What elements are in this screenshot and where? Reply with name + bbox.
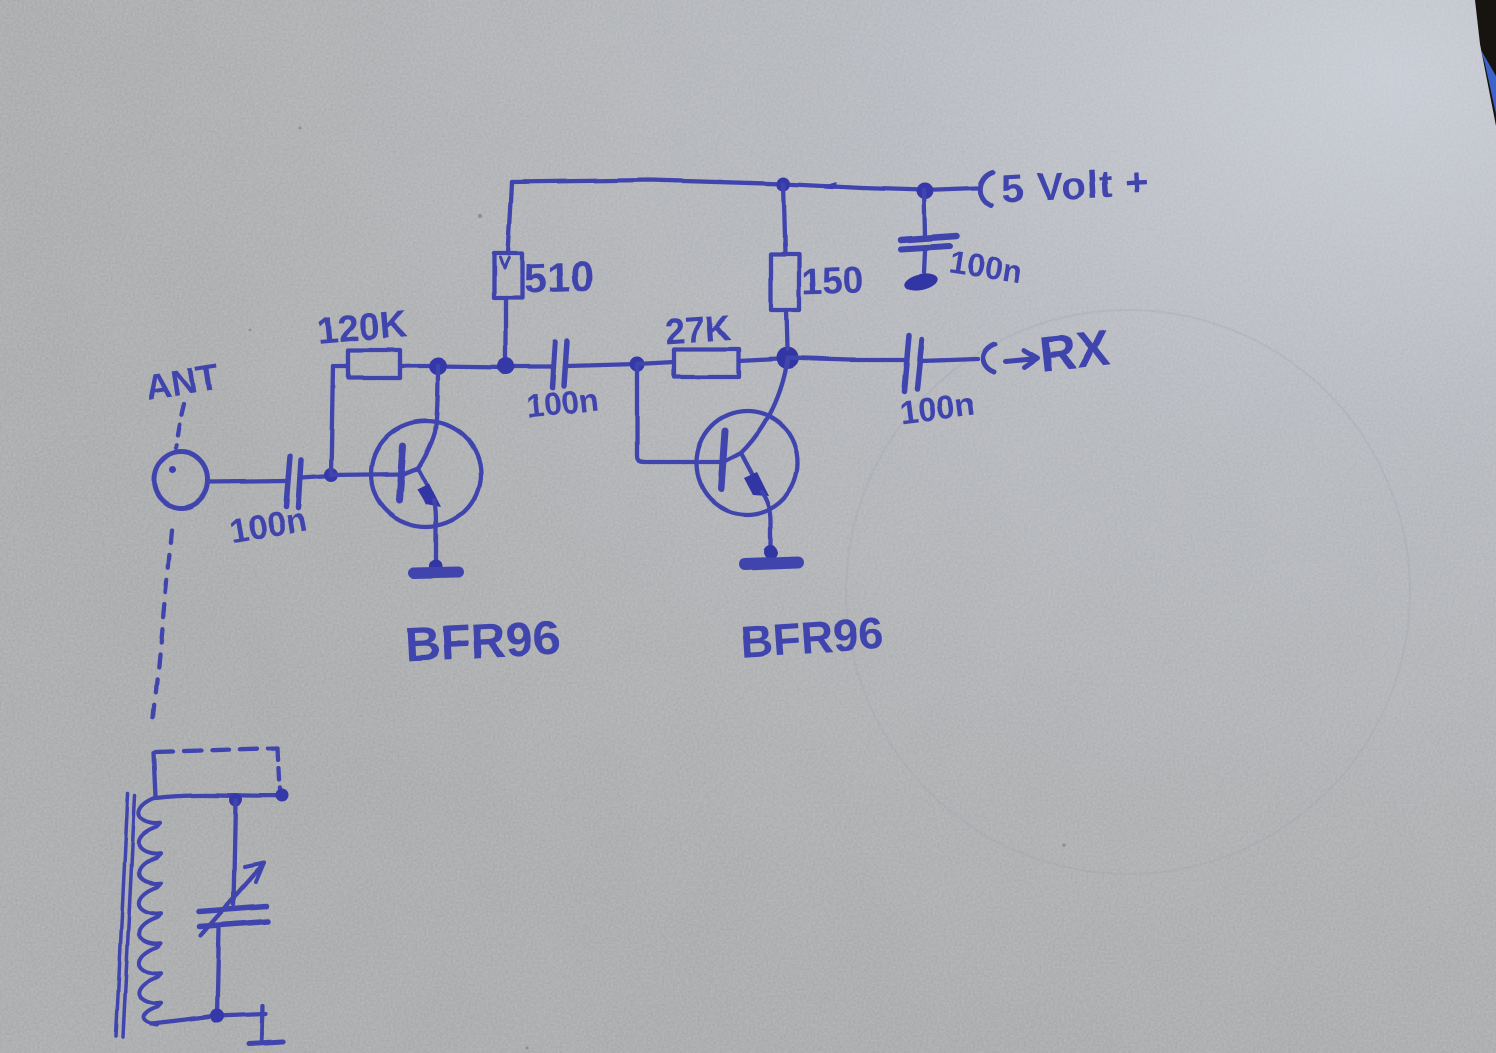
Q2 collector — [741, 360, 787, 453]
wire to 120K — [333, 364, 348, 368]
blue card edge in corner — [1481, 50, 1496, 114]
connector symbol 5V — [980, 172, 993, 206]
svg-text:100n: 100n — [524, 382, 600, 425]
varcap top lead — [234, 801, 236, 904]
node dashed top — [276, 790, 289, 803]
label BFR96 left — [404, 611, 562, 673]
wire C3 to RX connector — [921, 359, 978, 361]
core line 2 — [123, 795, 135, 1037]
antenna circle — [154, 452, 208, 508]
wire 120K to node — [400, 364, 431, 368]
wire antenna to C1 — [208, 481, 286, 482]
svg-text:120K: 120K — [315, 303, 410, 353]
Q2 base bar — [721, 431, 725, 489]
inductor coil — [139, 797, 161, 1025]
node base Q1 — [324, 468, 338, 482]
resistor 510 — [494, 253, 522, 298]
svg-text:BFR96: BFR96 — [739, 607, 885, 668]
node 27K left — [630, 357, 645, 372]
wire node to 27K — [637, 362, 674, 364]
transistor Q2 circle — [696, 411, 798, 515]
ground Q1 — [430, 560, 443, 573]
wire R510 to node — [504, 298, 508, 360]
svg-text:150: 150 — [801, 259, 864, 302]
svg-text:27K: 27K — [664, 306, 733, 352]
arrow to RX — [1006, 350, 1038, 367]
junction top rail / 150 branch — [776, 177, 790, 191]
dashed link to tank: horizontal — [156, 748, 278, 752]
wire C2 to node — [567, 364, 637, 366]
svg-text:510: 510 — [523, 253, 595, 302]
resistor 27K — [674, 349, 739, 377]
ground Q2 — [764, 545, 778, 559]
wire 27K to node — [739, 359, 778, 361]
wire 5V top rail — [512, 180, 977, 190]
tank bottom wire — [151, 1014, 266, 1024]
wire node to Q1 base — [331, 468, 418, 475]
wire main rail stage1 — [438, 366, 551, 367]
wire node to Q2 base — [637, 364, 741, 462]
wire C1 to base node — [301, 476, 331, 478]
resistor 120K — [348, 350, 400, 378]
dashed link vertical — [278, 748, 280, 790]
junction top rail / decoupling cap — [917, 183, 934, 200]
ground blob C4 — [903, 271, 940, 294]
svg-text:RX: RX — [1037, 320, 1112, 383]
capacitor C3 100n plates — [904, 336, 909, 391]
small tick mark on rail — [822, 182, 836, 189]
paper specks — [249, 127, 1066, 1050]
varcap bottom lead — [217, 928, 219, 1014]
Q1 base bar — [399, 446, 403, 500]
faint embossed circle — [846, 310, 1410, 874]
capacitor C2 100n plates — [552, 342, 555, 388]
label BFR96 right — [739, 607, 885, 668]
varcap plate bottom — [200, 921, 268, 926]
varcap plate top — [199, 906, 267, 911]
Q1 emitter — [418, 468, 432, 494]
wire R150 to top rail — [783, 184, 785, 254]
node 5 Volt + label — [1000, 160, 1151, 212]
node collector Q1 — [429, 357, 447, 375]
transistor Q1 circle — [371, 421, 481, 527]
capacitor C4 100n plates — [901, 236, 957, 240]
node below 510 — [498, 358, 515, 375]
wire node up to 120K — [331, 366, 333, 475]
wire top rail to R 510 — [508, 182, 512, 253]
resistor 150 — [771, 254, 799, 310]
node tank bottom — [210, 1009, 224, 1023]
coil top lead — [156, 795, 283, 798]
core line 1 — [116, 793, 128, 1036]
node varcap top — [230, 794, 243, 807]
svg-text:5 Volt +: 5 Volt + — [1000, 160, 1151, 212]
dashed lead ANT to circle — [176, 404, 184, 448]
varcap arrow — [201, 867, 261, 935]
dot in antenna — [170, 467, 177, 474]
wire rail to decoupling cap — [924, 190, 925, 237]
dashed line antenna down — [153, 530, 171, 722]
riser left solid — [154, 753, 156, 797]
terminal mark bottom — [262, 1006, 263, 1040]
photo corner dark edge top-right — [1475, 0, 1496, 126]
Q2 emitter — [741, 453, 758, 485]
connector symbol RX — [983, 344, 995, 372]
node collector Q2 — [776, 347, 798, 369]
svg-text:BFR96: BFR96 — [404, 611, 562, 673]
Q1 collector — [418, 366, 438, 468]
capacitor C1 100n plates — [286, 456, 290, 506]
wire output node to C3 — [787, 358, 905, 360]
label ANT — [142, 356, 222, 408]
wire node to R150 — [786, 310, 787, 349]
